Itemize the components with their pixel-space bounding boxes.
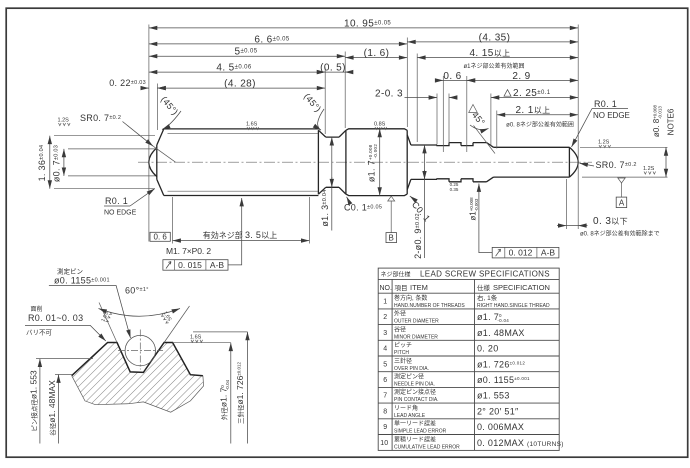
svg-text:0. 015: 0. 015: [178, 260, 202, 270]
dim 0.3 max incomplete thread: [565, 179, 567, 229]
svg-text:OUTER DIAMETER: OUTER DIAMETER: [394, 319, 439, 325]
dim 0.22 outside arrows: [142, 87, 149, 89]
svg-text:ø0. 1155±0.001: ø0. 1155±0.001: [54, 276, 110, 286]
extension line collar left face: [344, 52, 346, 129]
spec table grid: [378, 268, 559, 450]
svg-text:ø1. 553: ø1. 553: [477, 391, 510, 401]
svg-text:NEEDLE PIN DIA.: NEEDLE PIN DIA.: [394, 382, 435, 388]
svg-text:4: 4: [383, 346, 387, 353]
left chamfer 45deg top: [157, 129, 164, 145]
svg-text:ø1. 726±0.012: ø1. 726±0.012: [477, 359, 525, 369]
roughness 1.2S left tip: [58, 118, 71, 126]
svg-text:ø1ネジ部公差有効範囲: ø1ネジ部公差有効範囲: [463, 62, 524, 70]
svg-text:1: 1: [383, 299, 387, 306]
svg-text:CUMULATIVE LEAD ERROR: CUMULATIVE LEAD ERROR: [394, 444, 460, 450]
over pin dia extension: [193, 331, 248, 333]
dim phi0.7 left: [68, 148, 155, 150]
svg-text:1.6S: 1.6S: [246, 122, 258, 128]
extension line 4.15 start: [416, 54, 418, 143]
svg-text:B: B: [389, 234, 394, 243]
svg-text:バリ不可: バリ不可: [26, 329, 53, 337]
svg-text:仕様: 仕様: [477, 283, 491, 292]
svg-text:項目: 項目: [395, 284, 408, 292]
svg-text:2: 2: [383, 314, 387, 321]
extension line 2.1 start: [496, 111, 498, 149]
svg-text:2° 20′ 51″: 2° 20′ 51″: [477, 406, 519, 416]
datum A: [616, 178, 627, 208]
svg-text:2. 9: 2. 9: [512, 71, 530, 82]
roughness 1.2S right top: [598, 140, 611, 148]
svg-text:三針径ø1. 726±0.012: 三針径ø1. 726±0.012: [235, 361, 245, 424]
svg-text:1. 36±0.04: 1. 36±0.04: [37, 145, 47, 182]
svg-text:RIGHT HAND.SINGLE THREAD: RIGHT HAND.SINGLE THREAD: [477, 303, 550, 309]
svg-text:1.2S: 1.2S: [58, 118, 70, 124]
svg-text:LEAD SCREW SPECIFICATIONS: LEAD SCREW SPECIFICATIONS: [420, 270, 550, 279]
dim 2.1 min: [497, 114, 578, 116]
svg-text:谷径ø1. 48MAX: 谷径ø1. 48MAX: [47, 380, 57, 436]
hatched section: [72, 343, 204, 413]
roughness 1.2S right bottom: [643, 166, 656, 174]
svg-text:ø0. 8ネジ部公差有効範除まで: ø0. 8ネジ部公差有効範除まで: [580, 230, 660, 238]
dim (4.35): [407, 41, 578, 43]
dim 2-0.3 grooves: [405, 97, 438, 99]
dim effective thread 3.5 min: [172, 197, 174, 244]
svg-text:ø1. 48MAX: ø1. 48MAX: [477, 328, 525, 338]
svg-text:A-B: A-B: [541, 248, 556, 258]
collar left chamfer: [339, 130, 346, 194]
svg-text:7: 7: [383, 393, 387, 400]
svg-text:谷径: 谷径: [394, 325, 406, 333]
svg-text:SPECIFICATION: SPECIFICATION: [493, 283, 550, 292]
minor dia dim: [55, 374, 72, 376]
svg-text:単一リード誤差: 単一リード誤差: [394, 420, 436, 428]
svg-text:R0. 1: R0. 1: [105, 196, 128, 206]
R0.1 NO EDGE left callout: [130, 189, 155, 206]
SR0.7 left callout: [123, 122, 154, 147]
svg-text:2-ø0. 9±0.02: 2-ø0. 9±0.02: [413, 213, 423, 259]
svg-text:ø0. 1155±0.001: ø0. 1155±0.001: [477, 375, 530, 385]
svg-text:0. 3以下: 0. 3以下: [593, 216, 628, 227]
basic dim box 0.6: [150, 232, 170, 241]
extension line groove2 center: [466, 76, 468, 152]
SR0.7 right callout: [580, 163, 595, 166]
groove g1 phi0.9: [437, 143, 449, 182]
dim phi1.7 collar: [379, 129, 381, 196]
broken section boundary: [72, 376, 204, 413]
svg-text:0. 22±0.03: 0. 22±0.03: [109, 78, 146, 88]
svg-text:ピッチ: ピッチ: [394, 342, 412, 349]
roughness 1.6S thread: [246, 122, 259, 130]
dim phi1.3 groove: [331, 137, 333, 230]
svg-text:ITEM: ITEM: [410, 283, 428, 292]
svg-text:NO EDGE: NO EDGE: [593, 111, 630, 120]
feature control frame runout 0.015 A-B: [163, 198, 242, 270]
svg-text:NOTE6: NOTE6: [667, 108, 676, 135]
svg-text:A-B: A-B: [210, 260, 225, 270]
svg-text:0. 6: 0. 6: [443, 71, 461, 82]
svg-text:ø0. 8+0.008-0.013: ø0. 8+0.008-0.013: [652, 104, 662, 137]
svg-text:HAND.NUMBER OF THREADS: HAND.NUMBER OF THREADS: [394, 303, 465, 309]
flank extension lines: [99, 303, 117, 343]
svg-text:0.35: 0.35: [450, 187, 459, 192]
thread cylinder outline: [164, 129, 319, 196]
phi0.8 shaft: [494, 147, 570, 177]
svg-text:1.2S: 1.2S: [643, 166, 655, 172]
over pin dia dim: [247, 332, 249, 444]
svg-text:0. 006MAX: 0. 006MAX: [477, 422, 524, 432]
collar phi1.7: [346, 129, 407, 196]
chamfer callout C0.1 collar right: [410, 196, 417, 202]
dim 2.9: [467, 79, 578, 81]
extension line groove1 center: [442, 76, 444, 152]
svg-text:R0. 1: R0. 1: [594, 99, 617, 109]
svg-text:リード角: リード角: [394, 404, 418, 412]
svg-text:ピン接点径ø1. 553: ピン接点径ø1. 553: [29, 370, 39, 432]
svg-text:測定ピン接点径: 測定ピン接点径: [394, 388, 436, 396]
svg-text:R0. 01~0. 03: R0. 01~0. 03: [28, 313, 83, 323]
neck phi0.95: [411, 145, 437, 179]
dim phi0.8 vertical: [665, 147, 667, 177]
svg-text:0. 20: 0. 20: [477, 344, 499, 354]
svg-text:4. 15以上: 4. 15以上: [469, 48, 510, 59]
roughness 1.6S right flank: [160, 310, 173, 324]
centerline: [138, 161, 592, 163]
dim 4.5: [149, 71, 325, 73]
dim (0.5) outside arrows: [325, 71, 345, 73]
svg-text:右, 1条: 右, 1条: [477, 293, 498, 302]
extension line collar right face: [406, 38, 408, 128]
datum B: [386, 196, 397, 242]
svg-text:1.2S: 1.2S: [598, 140, 610, 146]
extension line groove1 right edge: [448, 94, 450, 145]
svg-text:2. 1以上: 2. 1以上: [515, 105, 550, 116]
dim 1.36 left: [54, 135, 155, 137]
pin contact dia dim: [36, 358, 93, 360]
svg-text:有効ネジ部 3. 5以上: 有効ネジ部 3. 5以上: [203, 230, 277, 240]
svg-text:NO.: NO.: [380, 285, 393, 292]
svg-text:MINOR DIAMETER: MINOR DIAMETER: [394, 334, 438, 340]
svg-text:C0. 1±0.05: C0. 1±0.05: [344, 203, 382, 213]
svg-text:SR0. 7±0.2: SR0. 7±0.2: [80, 113, 121, 123]
60 deg angle arc: [99, 309, 181, 317]
svg-text:5: 5: [383, 361, 387, 368]
svg-text:C0. 1: C0. 1: [410, 200, 432, 224]
svg-text:8: 8: [383, 408, 387, 415]
roughness 1.6S left flank: [100, 310, 112, 324]
svg-text:1.6S: 1.6S: [190, 335, 202, 341]
svg-text:SIMPLE LEAD ERROR: SIMPLE LEAD ERROR: [394, 429, 447, 435]
feature control frame runout 0.012 A-B: [479, 184, 559, 258]
svg-text:NO EDGE: NO EDGE: [104, 210, 137, 217]
roughness 0.8S collar: [374, 122, 387, 130]
svg-text:A: A: [619, 198, 625, 207]
right tip tangent edge: [568, 147, 570, 177]
extension line 2.25 start: [490, 94, 492, 147]
svg-text:巻方向, 条数: 巻方向, 条数: [394, 294, 427, 302]
svg-text:PIN CONTACT DIA.: PIN CONTACT DIA.: [394, 397, 439, 403]
svg-text:外径ø1. 70-0.04: 外径ø1. 70-0.04: [219, 379, 230, 420]
thread end chamfers into groove: [318, 130, 325, 194]
svg-text:(4. 28): (4. 28): [224, 79, 256, 90]
dim 5: [149, 55, 345, 57]
R0.1 NO EDGE right callout: [572, 109, 593, 148]
phi0.8 extension lines right: [580, 146, 668, 148]
svg-text:60°±1°: 60°±1°: [125, 286, 149, 296]
svg-text:LEAD ANGLE: LEAD ANGLE: [394, 413, 426, 419]
svg-text:(4. 35): (4. 35): [479, 32, 511, 43]
OD dim: [230, 343, 232, 444]
svg-text:0. 012MAX (10TURNS): 0. 012MAX (10TURNS): [477, 438, 564, 448]
svg-text:(45°): (45°): [159, 94, 180, 117]
svg-text:三針径: 三針径: [394, 357, 412, 365]
left tip sphere arc SR0.7: [149, 148, 157, 177]
collar right chamfer to neck: [407, 135, 411, 190]
svg-text:0.8S: 0.8S: [374, 122, 386, 128]
svg-text:0. 012: 0. 012: [509, 248, 533, 258]
svg-text:ø1+0.008-0.003: ø1+0.008-0.003: [469, 197, 479, 221]
svg-text:ø1. 70-0.04: ø1. 70-0.04: [477, 312, 509, 323]
svg-text:M1. 7×P0. 2: M1. 7×P0. 2: [166, 246, 211, 256]
svg-text:測定ピン径: 測定ピン径: [394, 373, 424, 381]
groove g2 phi0.9: [461, 143, 473, 182]
dim (1.6): [345, 57, 407, 59]
svg-text:測定ピン: 測定ピン: [57, 267, 83, 276]
measuring pin circle: [125, 335, 155, 365]
dim 6.6: [149, 43, 407, 45]
thread minor diameter lines: [168, 133, 319, 191]
left chamfer 45deg bottom: [157, 179, 164, 195]
svg-text:ø1. 7+0.008-0.002: ø1. 7+0.008-0.002: [367, 144, 378, 182]
svg-text:PITCH: PITCH: [394, 350, 409, 356]
dim triangle-flag 2.25: [491, 97, 578, 99]
groove phi1.3: [326, 137, 339, 187]
thread profile outline: [72, 343, 203, 376]
dim 10.95: [149, 27, 578, 29]
pin centerlines: [118, 350, 163, 352]
dim (4.28): [157, 87, 325, 89]
svg-text:6: 6: [383, 377, 387, 384]
extension line groove1 left edge: [436, 94, 438, 145]
extension line right tip: [577, 25, 579, 230]
svg-text:面削: 面削: [31, 305, 43, 313]
extension line 0.22 plane: [156, 84, 158, 131]
right tip sphere arc SR0.7: [569, 147, 578, 177]
svg-text:(1. 6): (1. 6): [364, 48, 390, 59]
svg-text:0. 6: 0. 6: [154, 233, 168, 242]
chamfer callout C0.1 collar left: [347, 197, 350, 203]
dim 2-phi0.9 grooves: [424, 145, 426, 258]
svg-text:累積リード誤差: 累積リード誤差: [394, 435, 436, 443]
svg-text:10: 10: [380, 440, 388, 447]
rib r1 phi1.0: [449, 143, 461, 182]
dim 4.15 min: [417, 57, 578, 59]
45deg flag callout phi0.8 chamfer: [469, 105, 478, 113]
svg-text:9: 9: [383, 424, 387, 431]
svg-text:(45°): (45°): [302, 91, 323, 114]
svg-text:(0. 5): (0. 5): [320, 63, 346, 74]
extension line left tip: [148, 25, 150, 242]
chamfer 45deg to phi0.8: [487, 143, 494, 182]
svg-text:3: 3: [383, 330, 387, 337]
extension line thread end: [324, 68, 326, 135]
OD extension line + roughness 1.6S: [173, 342, 231, 344]
svg-text:2-0. 3: 2-0. 3: [375, 88, 403, 99]
svg-text:ø1. 3±0.04: ø1. 3±0.04: [320, 189, 330, 226]
svg-text:外径: 外径: [394, 310, 406, 318]
svg-text:ø0. 8ネジ部公差有効範囲: ø0. 8ネジ部公差有効範囲: [506, 121, 574, 129]
rib r2 phi1.0: [473, 143, 487, 182]
dim 0.6 ring pitch outside arrows: [443, 79, 467, 81]
left tip tangent edge: [156, 145, 158, 179]
svg-text:ネジ部仕様: ネジ部仕様: [381, 271, 411, 279]
svg-text:ø0. 7±0.03: ø0. 7±0.03: [52, 145, 62, 182]
svg-text:OVER PIN DIA.: OVER PIN DIA.: [394, 366, 429, 372]
svg-text:SR0. 7±0.2: SR0. 7±0.2: [596, 160, 637, 170]
